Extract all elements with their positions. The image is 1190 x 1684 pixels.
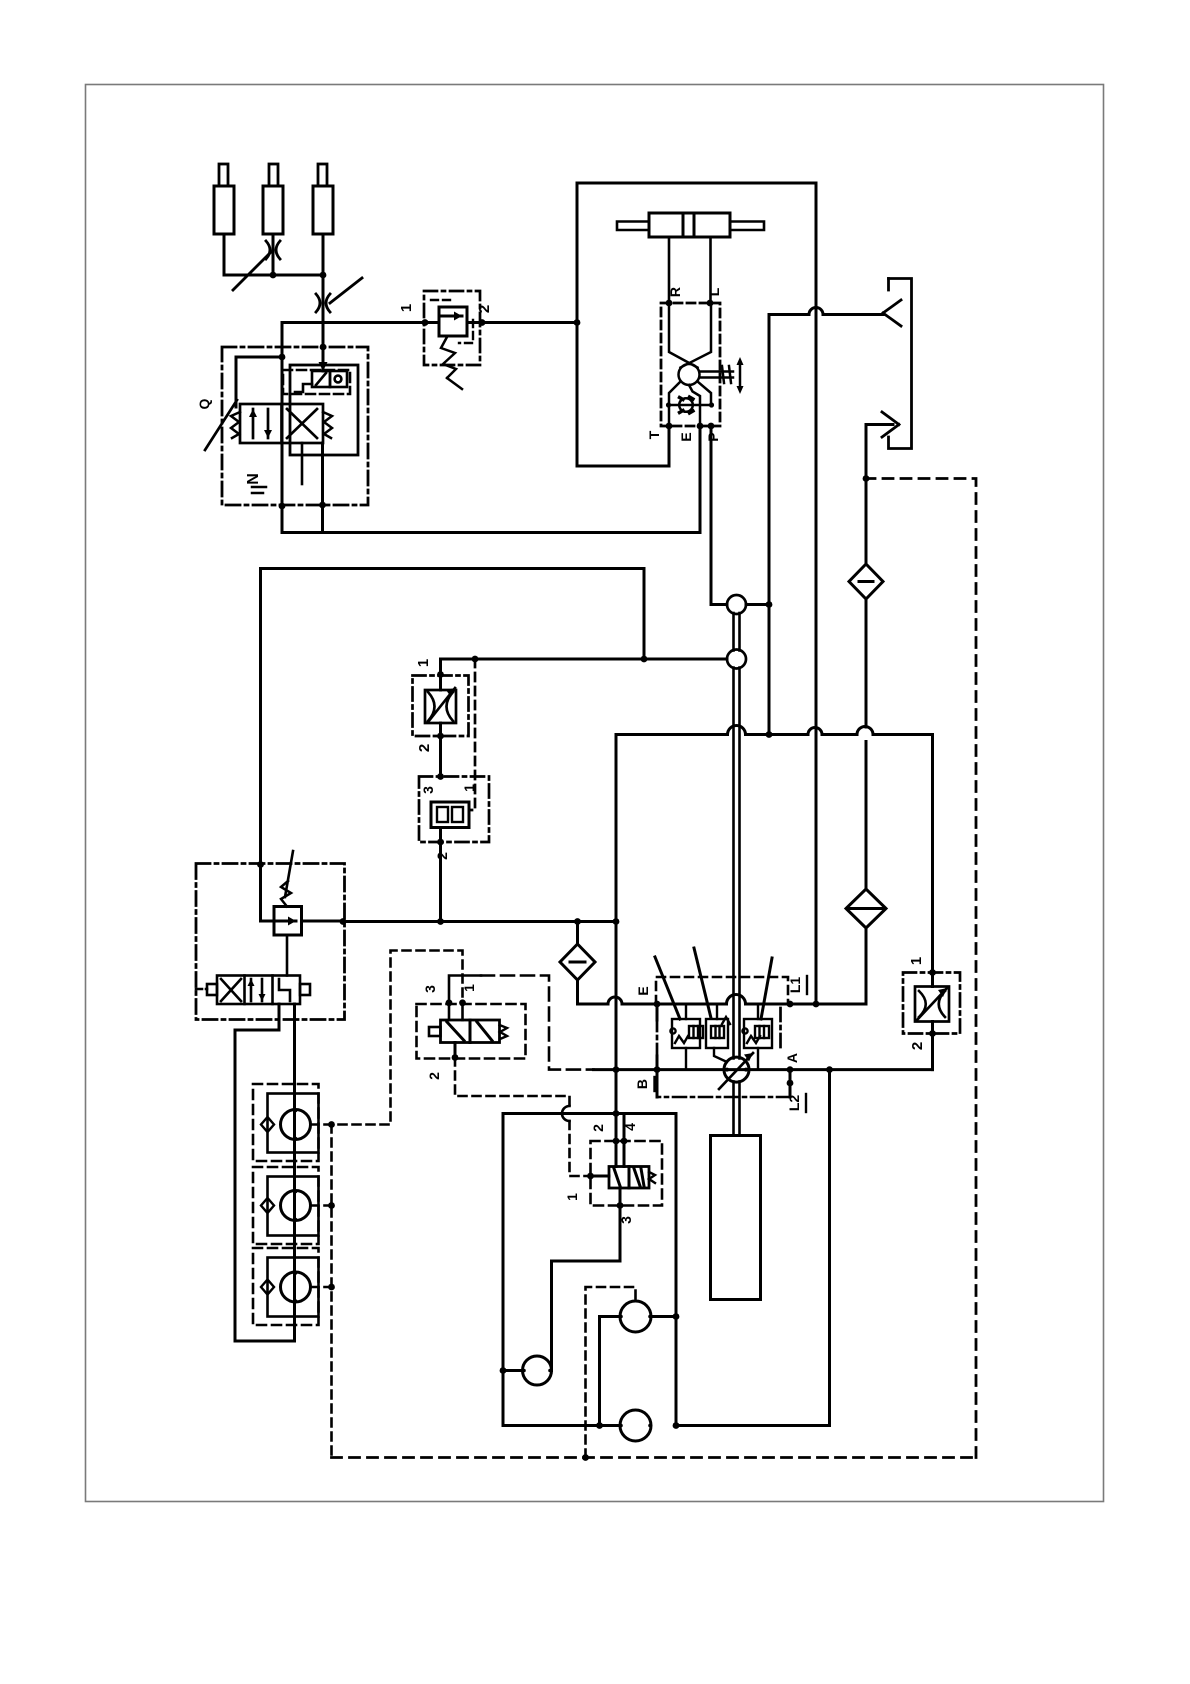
node: B-line x=616	[613, 1066, 620, 1073]
node: main line at steering box	[574, 319, 581, 326]
node: filter branch	[574, 918, 581, 925]
node: B port	[654, 1066, 661, 1073]
wire: riser to main line	[322, 275, 325, 323]
wire: SV2 down to relief header	[439, 842, 442, 922]
node: L1 port	[787, 1001, 794, 1008]
node: junction x=644	[641, 656, 648, 663]
wire: P port down to coupling	[711, 426, 727, 605]
wire: V1 inner riser	[301, 443, 304, 484]
node: V2 top feed	[257, 861, 264, 868]
valve unit V1 enclosure (dash-dot)	[222, 347, 368, 505]
node: V1 bottom border	[319, 502, 326, 509]
wire: return drop line	[768, 315, 771, 735]
node: pilot branch on suction	[863, 475, 870, 482]
node: P-line junction on return drop	[766, 601, 773, 608]
quick coupling on accumulator 2 line	[233, 241, 280, 290]
wire: cross line y=734.5 with hops	[616, 726, 933, 735]
adjuster slash 1	[655, 957, 680, 1019]
tank symbol (bracket)	[887, 279, 890, 291]
wire: pump pressure riser (B)	[293, 1004, 296, 1341]
SV2 enclosure (dash-dot)	[419, 777, 489, 843]
svg-text:4: 4	[622, 1123, 638, 1131]
node: header junction 1	[270, 272, 277, 279]
svg-text:3: 3	[618, 1216, 634, 1224]
relief valve in V2	[261, 851, 344, 976]
inner block frame of V1	[290, 365, 358, 455]
node: left branch	[279, 354, 286, 361]
node: SV3 pilot	[587, 1173, 594, 1180]
wire: SV3 port3 to gauge1	[552, 1206, 621, 1371]
filter F3	[560, 922, 595, 1005]
wire: relief header line y=921.5	[343, 920, 616, 923]
svg-text:1: 1	[564, 1193, 580, 1201]
node: gauge1 left	[500, 1367, 507, 1374]
main spool valve of V1	[240, 404, 323, 443]
wire: mid cross line y=659	[441, 658, 728, 661]
arrow into pilot valve	[319, 362, 328, 371]
gauge circle 1	[503, 1356, 552, 1385]
node: gauge riser	[826, 1066, 833, 1073]
wire: link from mid line up-left to V2	[261, 569, 645, 865]
steering unit internals	[666, 303, 744, 426]
node: port P	[708, 423, 715, 430]
wire: B port drop to L2 line	[656, 1070, 659, 1097]
node: port R	[666, 300, 673, 307]
node: FV2 top	[929, 969, 936, 976]
node: SV4 port1	[459, 999, 466, 1006]
node: SV3 port2	[613, 1138, 620, 1145]
pilot solenoid valve of V1	[283, 370, 350, 394]
pump group 1	[253, 1084, 319, 1161]
pilot dashed: pump stubs	[311, 1204, 332, 1207]
node: V1 top border	[320, 344, 327, 351]
svg-text:T: T	[646, 430, 662, 439]
TH1 enclosure (dash-dot)	[413, 676, 469, 737]
node: pilot branch at pump1	[328, 1121, 335, 1128]
dash-dot L2 drain to SV3 area	[659, 1096, 790, 1099]
node: port L	[707, 300, 714, 307]
node: V2 relief outlet	[340, 918, 347, 925]
wire: drop x=616	[615, 735, 618, 1142]
svg-text:1: 1	[461, 784, 477, 792]
node: frame x=616 junction	[613, 1110, 620, 1117]
svg-text:E: E	[635, 986, 651, 995]
node: SV2 to header junction	[437, 918, 444, 925]
node: drop junction	[279, 503, 286, 510]
relief valve RV1 enclosure	[424, 291, 480, 365]
node: gauge3 right	[673, 1422, 680, 1429]
node: relief outlet	[479, 319, 486, 326]
svg-text:Q: Q	[196, 398, 212, 409]
svg-text:2: 2	[476, 305, 493, 313]
node: gauge2 drop on bottom line	[596, 1422, 603, 1429]
node: TH1 top	[437, 671, 444, 678]
wire: port4 jumper	[623, 1114, 626, 1142]
node: TH1 bottom	[437, 733, 444, 740]
pilot dashed: bottom rail	[332, 1456, 977, 1459]
spring right of V1 spool	[323, 412, 332, 438]
accumulator 1	[214, 164, 234, 275]
steering valve enclosure (dashed)	[661, 303, 720, 426]
wire: main supply line	[282, 321, 439, 324]
coupling circle C1	[727, 595, 746, 614]
shock valve 2	[706, 1004, 730, 1062]
svg-text:R: R	[667, 287, 683, 297]
node: junction x=475	[472, 656, 479, 663]
svg-text:L: L	[706, 287, 722, 296]
pump group 3	[253, 1248, 319, 1325]
label N with underline	[245, 473, 266, 493]
gauge circle 2	[600, 1301, 677, 1426]
svg-text:2: 2	[909, 1042, 926, 1050]
wire: C1 to return drop	[746, 603, 769, 606]
double hose motor to tank	[734, 1082, 740, 1136]
cylinder rod	[617, 222, 764, 231]
svg-text:P: P	[705, 432, 721, 441]
shock valve 3	[742, 1004, 772, 1070]
node: relief inlet	[422, 319, 429, 326]
wire: L2 dash-dot line	[789, 1070, 792, 1097]
double hose between couplings	[734, 613, 740, 651]
flow control valve FV2	[915, 973, 949, 1034]
pilot dashed: gauge2 branch	[586, 1287, 636, 1458]
node: L2 drop	[787, 1080, 794, 1087]
node: gauge2 right	[673, 1313, 680, 1320]
svg-text:A: A	[784, 1053, 800, 1063]
svg-text:3: 3	[420, 786, 436, 794]
arrowhead into tank (return)	[883, 300, 901, 326]
svg-text:2: 2	[590, 1124, 606, 1132]
solenoid valve SV3 (4/2)	[591, 1141, 656, 1206]
wire: E line y=1004 with hops	[578, 995, 867, 1005]
node: FV2 bottom	[929, 1030, 936, 1037]
node: stub junctions	[328, 1202, 335, 1209]
pilot dashed from mid line to SV2 port1	[469, 659, 475, 810]
wire: suction drop line	[865, 425, 868, 565]
solenoid cartridge SV2	[431, 802, 469, 842]
svg-text:1: 1	[908, 957, 925, 965]
shock valve 1	[670, 1004, 703, 1070]
wire: right drop x=932.5	[931, 735, 934, 973]
node: SV4 port2	[452, 1054, 459, 1061]
steering cylinder body	[649, 213, 730, 237]
node: SV3 port3	[617, 1202, 624, 1209]
wire: suction continues down	[865, 599, 868, 727]
svg-text:2: 2	[416, 744, 433, 752]
wire: suction from tank	[866, 423, 893, 426]
wire: left branch inside V1	[236, 357, 282, 407]
svg-text:N: N	[245, 473, 262, 485]
svg-text:1: 1	[398, 304, 415, 312]
relief valve RV1 body	[439, 307, 467, 389]
pilot dashed from SV4 port2 to SV3 pilot	[455, 1058, 570, 1107]
node: SV3 port4	[621, 1138, 628, 1145]
border frame	[86, 85, 1104, 1502]
node: SV2 port3 top	[437, 773, 444, 780]
node: port E	[697, 423, 704, 430]
spring left of V1 spool	[231, 412, 240, 438]
pilot dashed: pump1 to SV4 port1	[311, 951, 463, 1125]
node: SV4 port3	[446, 999, 453, 1006]
svg-text:E: E	[678, 432, 694, 441]
quick coupling on main riser	[316, 278, 362, 312]
adjuster slash 2	[694, 948, 711, 1018]
pilot dashed: down to bottom rail	[330, 1125, 333, 1458]
node: SV2 port2 bottom	[437, 839, 444, 846]
svg-text:B: B	[634, 1079, 650, 1089]
svg-text:L1: L1	[787, 977, 803, 994]
accumulator 3	[313, 164, 333, 275]
SV3 enclosure (dashed)	[591, 1141, 663, 1206]
directional valve DV2 in V2	[196, 976, 310, 1005]
pilot dashed top line of valve block	[656, 977, 788, 1004]
wire: accumulator header	[224, 274, 323, 277]
throttle valve TH1	[425, 659, 456, 777]
svg-text:2: 2	[426, 1072, 442, 1080]
node: rail junction	[582, 1454, 589, 1461]
FV2 enclosure (dash-dot)	[903, 973, 960, 1034]
pilot dashed: right riser	[866, 479, 976, 1458]
svg-text:1: 1	[415, 659, 432, 667]
manual override Q with lever	[196, 398, 237, 450]
double hose below C2 to motor	[734, 668, 740, 1059]
wire: cylinder to steering ports	[668, 237, 671, 303]
node: header end	[613, 918, 620, 925]
SV4 enclosure	[417, 1004, 526, 1059]
filter F1	[849, 564, 883, 599]
relief valve RV1 pilot dashes	[431, 299, 452, 301]
node: header junction 2	[320, 272, 327, 279]
adjuster slash 3	[761, 958, 772, 1019]
valve unit V2 enclosure (dash-dot)	[196, 864, 345, 1020]
accumulator 2	[263, 164, 283, 275]
arrowhead suction	[882, 412, 899, 437]
wire: main riser through V1	[322, 323, 325, 372]
node: return drop junction	[766, 731, 773, 738]
gauge supply frame	[502, 1114, 505, 1426]
wire: B/A line y=1069.6	[594, 1068, 933, 1071]
wire: suction riser (A)	[235, 1004, 295, 1341]
pump group 2	[253, 1167, 319, 1244]
steering console box	[577, 183, 816, 1004]
gauge circle 3	[503, 1410, 652, 1441]
filter F2	[846, 742, 886, 1005]
wire: gauge riser down	[676, 1070, 830, 1426]
oil tank	[711, 1136, 761, 1300]
node: port T	[666, 423, 673, 430]
valve block enclosure (dash-dot)	[657, 1008, 781, 1058]
wire: V1 output riser	[321, 443, 324, 533]
node: steering drop at E line	[813, 1001, 820, 1008]
hydraulic motor (variable)	[719, 1053, 753, 1089]
svg-text:3: 3	[422, 985, 438, 993]
node: A port riser	[787, 1066, 794, 1073]
wire: left supply drop	[282, 323, 700, 533]
wire: FV2 down and A-line to motor	[931, 1034, 934, 1070]
wire: return line to tank with hop	[769, 308, 883, 315]
solenoid valve SV4 (3/2)	[429, 1003, 507, 1058]
coupling circle C2	[727, 650, 746, 669]
pilot: SV4 port3 to B line	[449, 976, 594, 1070]
node: E at valve block	[654, 1001, 661, 1008]
